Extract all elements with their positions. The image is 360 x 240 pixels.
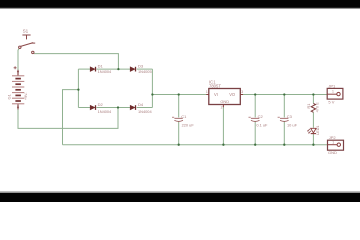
svg-text:3: 3: [241, 90, 243, 94]
wire: ground rail: [63, 144, 328, 146]
battery G1: [17, 70, 19, 110]
junction node at bridge bottom mid: [117, 106, 119, 108]
wire: bridge row2: [78, 107, 152, 109]
wire: regulator ground pin to rail: [222, 107, 224, 145]
svg-text:D1: D1: [98, 63, 104, 68]
label D1: [98, 63, 104, 68]
value D3: [138, 69, 152, 74]
junction node LED bottom: [312, 144, 314, 146]
svg-text:220 uF: 220 uF: [182, 122, 195, 127]
svg-text:7805T: 7805T: [209, 84, 221, 89]
label LED1: [316, 126, 320, 135]
value R1: [315, 102, 320, 113]
label JP2: [329, 135, 337, 140]
svg-text:5 V: 5 V: [328, 99, 334, 104]
label C3: [287, 114, 293, 119]
svg-text:0.1 uF: 0.1 uF: [256, 122, 268, 127]
label G1: [7, 93, 12, 99]
pin number 1: [206, 90, 208, 94]
svg-text:VO: VO: [229, 92, 235, 97]
pin label VI: [214, 92, 218, 97]
capacitor C2: [249, 117, 260, 121]
wire: R1 LED branch vertical: [312, 95, 314, 145]
value D2: [98, 109, 112, 114]
svg-text:LED1: LED1: [316, 126, 320, 135]
svg-text:+9V-: +9V-: [24, 92, 28, 100]
svg-text:C1: C1: [181, 114, 187, 119]
svg-text:1: 1: [332, 141, 334, 145]
value GND: [328, 150, 337, 155]
svg-text:1N4004: 1N4004: [98, 69, 112, 74]
svg-text:1N4004: 1N4004: [138, 109, 152, 114]
diode D4: [130, 105, 135, 110]
diode D2: [90, 105, 95, 110]
junction node at bridge left tap: [77, 88, 79, 90]
pin label VO: [229, 92, 235, 97]
value C3: [287, 122, 298, 127]
wire: battery negative to bridge bottom mid: [18, 108, 118, 129]
svg-text:GND: GND: [328, 150, 337, 155]
capacitor C3: [278, 117, 289, 121]
label IC1: [209, 80, 216, 85]
junction node C2 bottom: [254, 144, 256, 146]
pin label GND: [220, 99, 229, 104]
pin number JP1-1: [332, 90, 334, 94]
wire: ground tap from bridge left: [63, 90, 79, 145]
diode D1: [90, 67, 95, 72]
svg-text:R1: R1: [306, 103, 311, 109]
svg-text:470 E: 470 E: [315, 102, 320, 113]
svg-text:1: 1: [332, 90, 334, 94]
resistor R1: [311, 103, 315, 112]
battery long plates: [12, 76, 24, 104]
value C2: [256, 122, 268, 127]
label S1: [23, 29, 29, 34]
connector JP1: [327, 88, 343, 99]
junction node C2 top: [254, 93, 256, 95]
svg-text:1N4004: 1N4004: [98, 109, 112, 114]
top letterbox bar: [0, 0, 360, 9]
svg-text:JP2: JP2: [329, 135, 337, 140]
battery value label: [24, 92, 28, 100]
wire: bridge row1: [78, 68, 152, 70]
junction node C1 bottom: [178, 144, 180, 146]
junction node at bridge top mid: [117, 68, 119, 70]
value C1: [182, 122, 195, 127]
label JP1: [328, 83, 336, 88]
svg-text:S1: S1: [23, 29, 29, 34]
wire: battery positive to switch: [18, 49, 19, 70]
wire: C1 vertical: [178, 95, 180, 145]
svg-text:VI: VI: [214, 92, 218, 97]
wire: regulator output rail to JP1: [243, 94, 327, 96]
label D4: [138, 102, 144, 107]
connector JP2: [328, 140, 344, 150]
value 7805T: [209, 84, 221, 89]
label C2: [258, 114, 264, 119]
value D1: [98, 69, 112, 74]
pin number 3: [241, 90, 243, 94]
wire: switch output to bridge top mid: [34, 54, 118, 70]
capacitor C1: [172, 117, 183, 121]
label D3: [138, 63, 144, 68]
LED LED1: [307, 128, 316, 133]
svg-text:C3: C3: [287, 114, 293, 119]
label R1: [306, 103, 311, 109]
label D2: [98, 102, 104, 107]
bottom letterbox bar: [0, 191, 360, 202]
svg-text:JP1: JP1: [328, 83, 336, 88]
junction node C1 top: [178, 93, 180, 95]
svg-text:D2: D2: [98, 102, 104, 107]
svg-text:D3: D3: [138, 63, 144, 68]
svg-text:C2: C2: [258, 114, 264, 119]
svg-text:D4: D4: [138, 102, 144, 107]
wire: output rail to regulator input: [152, 94, 206, 96]
value 5V: [328, 99, 334, 104]
junction node R1 top: [312, 93, 314, 95]
label C1: [181, 114, 187, 119]
pin number 2: [221, 105, 223, 109]
svg-text:1: 1: [206, 90, 208, 94]
junction node at bridge output: [151, 93, 153, 95]
value D4: [138, 109, 152, 114]
svg-text:GND: GND: [220, 99, 229, 104]
junction node IC1 gnd bottom: [222, 144, 224, 146]
diode D3: [130, 67, 135, 72]
pin number JP2-1: [332, 141, 334, 145]
battery short plates: [15, 79, 21, 101]
wire: C2 vertical: [254, 95, 256, 145]
junction node C3 bottom: [283, 144, 285, 146]
svg-text:10 uF: 10 uF: [287, 122, 298, 127]
svg-text:1N4005: 1N4005: [138, 69, 152, 74]
switch S1: [19, 35, 36, 54]
svg-text:G1: G1: [7, 93, 12, 99]
voltage regulator IC1: [206, 89, 243, 108]
wire: bridge left vertical: [77, 69, 79, 107]
svg-text:2: 2: [221, 105, 223, 109]
junction node C3 top: [283, 93, 285, 95]
wire: C3 vertical: [283, 95, 285, 145]
wire: bridge right vertical: [151, 69, 153, 107]
battery plus sign: [14, 66, 17, 69]
